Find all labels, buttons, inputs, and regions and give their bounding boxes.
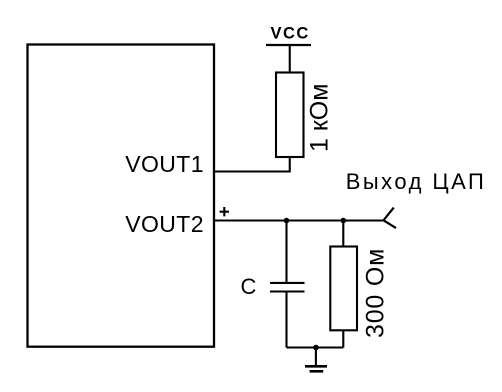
- node junction R2: [341, 218, 347, 224]
- svg-text:VOUT2: VOUT2: [125, 211, 204, 237]
- node junction C: [284, 218, 290, 224]
- ground: [315, 348, 317, 367]
- polarity +: [220, 207, 229, 216]
- resistor R2: [330, 247, 357, 331]
- svg-text:300 Ом: 300 Ом: [361, 248, 389, 338]
- wire R2 to ground: [342, 330, 344, 347]
- capacitor C1 leads: [285, 221, 287, 348]
- svg-text:1 кОм: 1 кОм: [306, 84, 334, 152]
- wire bottom: [287, 346, 344, 348]
- resistor R1: [276, 73, 304, 158]
- connector Vyhod DAC: [384, 208, 397, 229]
- svg-text:C: C: [241, 274, 257, 299]
- power VCC: [266, 44, 311, 46]
- svg-text:VCC: VCC: [271, 24, 310, 42]
- node junction ground: [313, 345, 319, 351]
- wire R1 to VCC: [289, 45, 291, 73]
- svg-text:VOUT1: VOUT1: [125, 151, 204, 177]
- svg-text:Выход ЦАП: Выход ЦАП: [346, 169, 487, 194]
- wire VOUT2 net: [214, 219, 384, 221]
- op-amp U1 (IC box): [28, 45, 215, 347]
- wire VOUT1 to R1: [214, 157, 290, 172]
- capacitor C1 plates: [270, 283, 305, 292]
- wire node to R2: [342, 221, 344, 247]
